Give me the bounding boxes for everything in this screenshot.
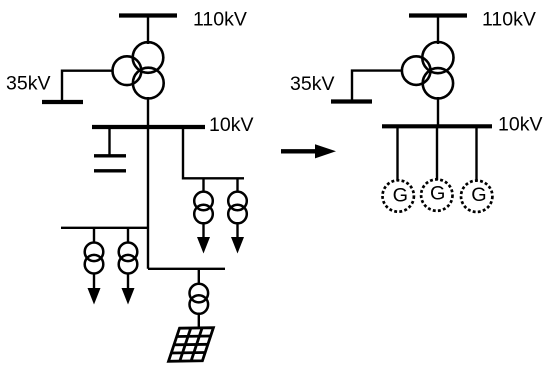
transformer T7 (three-winding 110/35/10 kV) [402,42,454,99]
PV array (solar panel) [169,328,214,362]
svg-text:110kV: 110kV [482,9,536,31]
busbar 35kV (left) [42,100,83,104]
busbar 35kV (right) [331,99,372,103]
wire: T7 tertiary to 35kV busbar [352,71,402,102]
svg-text:110kV: 110kV [193,9,247,31]
transformer T3 (two-winding) [228,192,247,224]
svg-text:35kV: 35kV [6,73,50,95]
load arrow below T5 [122,273,135,305]
transformer T1 (three-winding 110/35/10 kV) [113,42,164,98]
wire: drop to transformer T6 [198,269,200,285]
svg-text:G: G [393,185,408,207]
wire: drop to generator G2 [436,126,438,180]
wire: drop to generator G3 [475,126,477,181]
wire: drop to transformer T4 [93,228,95,243]
sub-bus (lower left) [61,227,148,229]
wire: drop to transformer T2 [202,178,204,192]
load arrow below T2 [197,223,210,254]
wire: branch from 10kV bus to right sub-bus [183,127,244,178]
svg-text:10kV: 10kV [209,114,253,136]
wire: drop to transformer T5 [127,228,129,243]
busbar 10kV (left) [92,125,205,129]
wire: main 10kV feeder (vertical) [147,127,149,269]
transformer T4 (two-winding) [85,243,104,274]
busbar 10kV (right) [382,124,492,128]
generator G3 (virtual synchronous generator) [461,181,492,212]
wire: T1 secondary to 10kV busbar [147,97,149,127]
svg-text:G: G [471,184,486,206]
busbar 110kV (right) [409,13,467,17]
wire: 110kV busbar to transformer T7 [437,16,439,45]
wire: T6 to PV array [198,313,200,329]
busbar 110kV (left) [119,13,177,17]
wire: bottom branch from feeder [148,268,225,270]
svg-text:10kV: 10kV [498,114,542,136]
svg-text:G: G [430,183,445,205]
generator G2 (virtual synchronous generator) [421,179,452,210]
wire: drop to generator G1 [396,126,398,181]
transformer T2 (two-winding) [194,192,213,224]
capacitor C1 on 10kV bus [94,127,126,171]
load arrow below T4 [88,273,101,305]
transformer T6 (two-winding, PV step-up) [190,284,209,314]
wire: T7 secondary to 10kV busbar [437,97,439,126]
wire: T1 tertiary to 35kV busbar [62,71,112,102]
svg-text:35kV: 35kV [290,73,334,95]
generator G1 (virtual synchronous generator) [383,180,414,211]
transformer T5 (two-winding) [119,243,138,274]
load arrow below T3 [231,223,244,254]
arrow: transition (before/after) [281,144,336,158]
wire: drop to transformer T3 [236,178,238,192]
wire: 110kV busbar to transformer T1 [147,16,149,45]
